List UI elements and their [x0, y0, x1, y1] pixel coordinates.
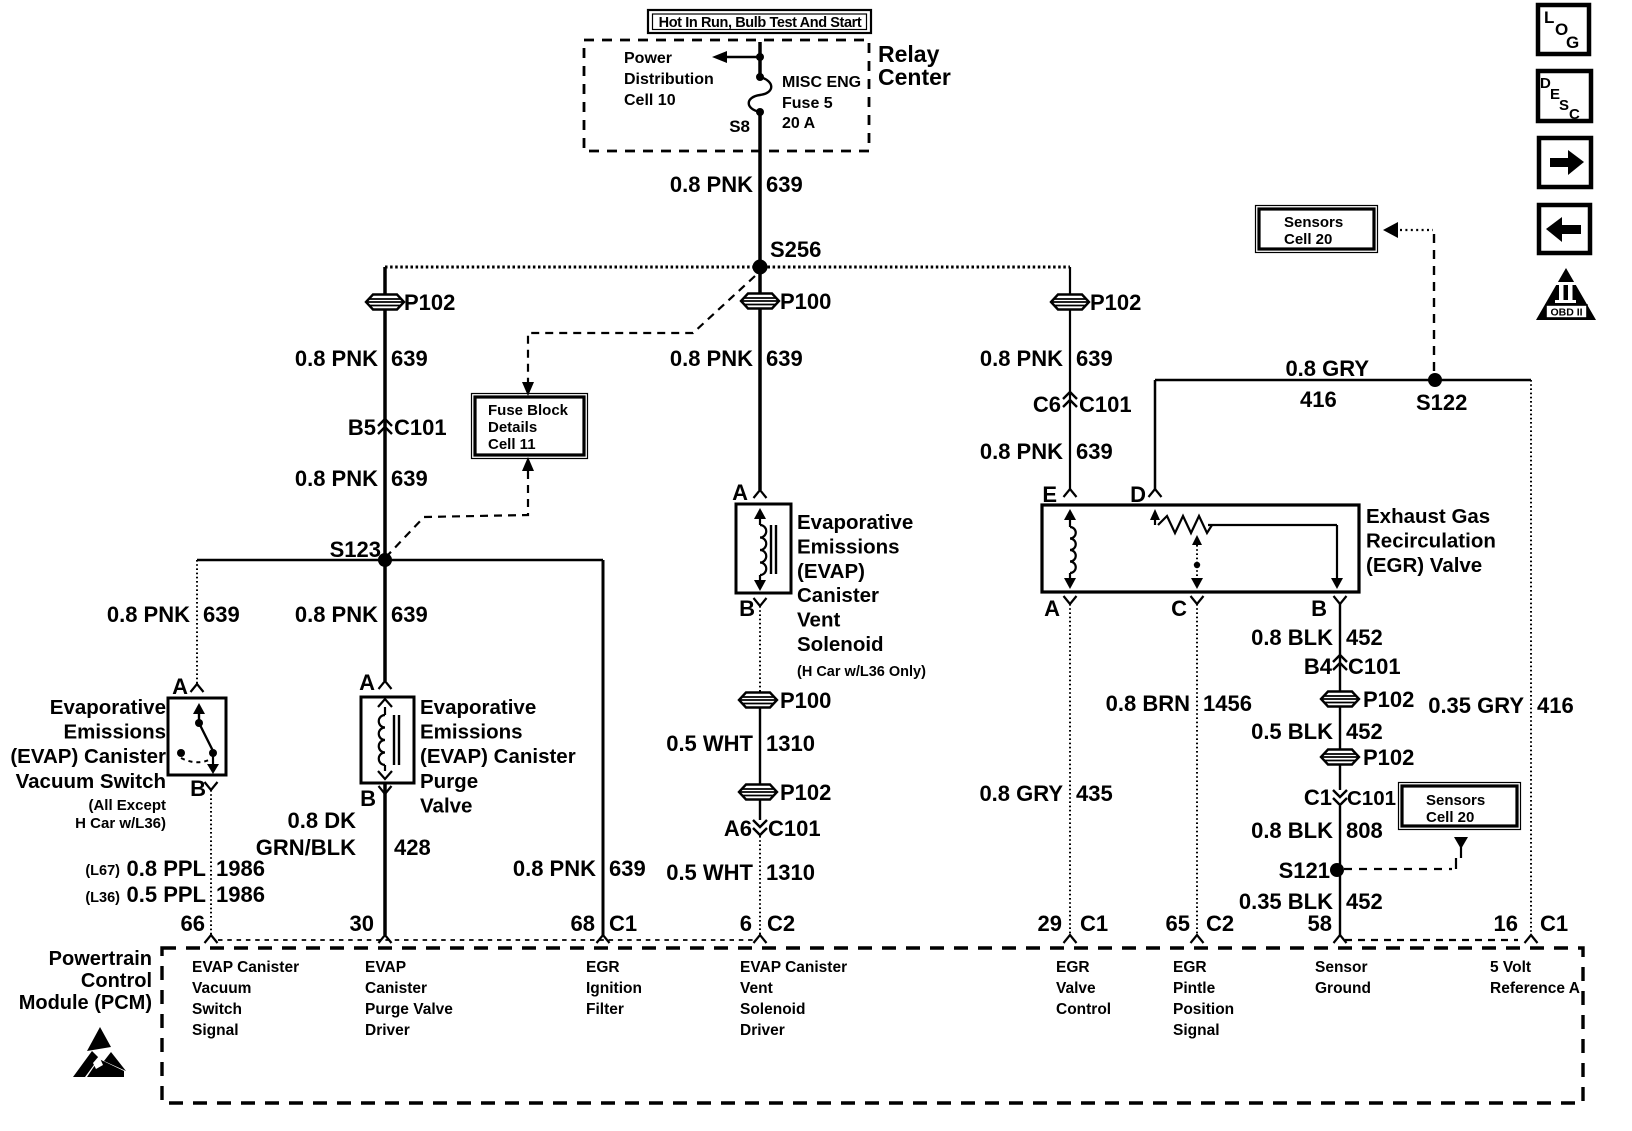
svg-text:Purge: Purge	[420, 770, 478, 793]
svg-text:5 Volt: 5 Volt	[1490, 959, 1531, 976]
svg-text:(H Car w/L36 Only): (H Car w/L36 Only)	[797, 664, 926, 680]
svg-text:0.8 DK: 0.8 DK	[288, 808, 357, 833]
svg-text:Vent: Vent	[797, 609, 840, 632]
svg-text:0.8 BLK: 0.8 BLK	[1251, 625, 1333, 650]
svg-text:Driver: Driver	[365, 1022, 410, 1039]
svg-text:Position: Position	[1173, 1001, 1234, 1018]
svg-text:30: 30	[350, 911, 374, 936]
svg-text:D: D	[1130, 482, 1146, 507]
svg-text:B: B	[190, 776, 206, 801]
svg-text:C1: C1	[1540, 911, 1568, 936]
svg-text:B: B	[739, 596, 755, 621]
svg-text:0.8 PNK: 0.8 PNK	[107, 602, 190, 627]
svg-text:68: 68	[571, 911, 595, 936]
svg-text:639: 639	[203, 602, 240, 627]
svg-text:A: A	[1044, 596, 1060, 621]
svg-text:(EVAP) Canister: (EVAP) Canister	[10, 745, 166, 768]
svg-text:C1: C1	[1080, 911, 1108, 936]
svg-text:0.8 BLK: 0.8 BLK	[1251, 818, 1333, 843]
svg-text:Cell 11: Cell 11	[488, 436, 536, 453]
svg-text:0.5 BLK: 0.5 BLK	[1251, 719, 1333, 744]
svg-text:B: B	[1311, 596, 1327, 621]
svg-text:P102: P102	[1090, 290, 1141, 315]
svg-text:639: 639	[1076, 346, 1113, 371]
svg-text:S256: S256	[770, 237, 821, 262]
svg-text:1456: 1456	[1203, 691, 1252, 716]
svg-text:Canister: Canister	[797, 584, 879, 607]
svg-text:639: 639	[609, 856, 646, 881]
svg-text:C101: C101	[394, 415, 447, 440]
svg-text:0.8 GRY: 0.8 GRY	[1285, 356, 1369, 381]
svg-text:0.8 GRY: 0.8 GRY	[979, 781, 1063, 806]
svg-text:Recirculation: Recirculation	[1366, 529, 1496, 552]
svg-text:Cell 10: Cell 10	[624, 92, 676, 109]
svg-text:0.5 PPL: 0.5 PPL	[127, 882, 206, 907]
svg-text:0.5 WHT: 0.5 WHT	[666, 731, 753, 756]
svg-text:639: 639	[391, 346, 428, 371]
svg-text:Powertrain: Powertrain	[49, 948, 152, 970]
svg-text:0.8 PNK: 0.8 PNK	[295, 346, 378, 371]
svg-text:Signal: Signal	[1173, 1022, 1220, 1039]
svg-text:639: 639	[1076, 439, 1113, 464]
svg-text:1310: 1310	[766, 860, 815, 885]
svg-text:808: 808	[1346, 818, 1383, 843]
svg-text:B: B	[360, 786, 376, 811]
svg-text:EGR: EGR	[586, 959, 620, 976]
svg-text:S8: S8	[729, 117, 750, 136]
svg-text:Pintle: Pintle	[1173, 980, 1216, 997]
svg-text:EGR: EGR	[1173, 959, 1207, 976]
svg-text:A: A	[359, 670, 375, 695]
svg-text:1986: 1986	[216, 882, 265, 907]
svg-text:A6: A6	[724, 816, 752, 841]
svg-text:416: 416	[1537, 693, 1574, 718]
svg-text:P100: P100	[780, 289, 831, 314]
svg-text:C1: C1	[1304, 785, 1332, 810]
svg-text:0.5 WHT: 0.5 WHT	[666, 860, 753, 885]
svg-text:(L36): (L36)	[85, 890, 120, 906]
svg-text:A: A	[172, 674, 188, 699]
svg-text:Solenoid: Solenoid	[797, 633, 884, 656]
svg-text:EVAP Canister: EVAP Canister	[192, 959, 299, 976]
svg-text:Switch: Switch	[192, 1001, 242, 1018]
svg-text:Power: Power	[624, 50, 672, 67]
svg-text:Evaporative: Evaporative	[50, 696, 166, 719]
svg-text:H Car w/L36): H Car w/L36)	[75, 815, 166, 832]
svg-text:(EVAP) Canister: (EVAP) Canister	[420, 745, 576, 768]
svg-text:58: 58	[1308, 911, 1332, 936]
svg-text:Evaporative: Evaporative	[797, 511, 913, 534]
svg-text:C101: C101	[1347, 787, 1396, 810]
svg-text:GRN/BLK: GRN/BLK	[256, 835, 356, 860]
svg-text:452: 452	[1346, 889, 1383, 914]
svg-text:MISC ENG: MISC ENG	[782, 74, 861, 91]
svg-text:0.8 BRN: 0.8 BRN	[1106, 691, 1190, 716]
svg-text:66: 66	[181, 911, 205, 936]
svg-text:Cell 20: Cell 20	[1284, 231, 1332, 248]
svg-text:Exhaust Gas: Exhaust Gas	[1366, 505, 1490, 528]
svg-text:Hot In Run, Bulb Test And Star: Hot In Run, Bulb Test And Start	[659, 15, 862, 31]
svg-text:P100: P100	[780, 688, 831, 713]
svg-text:6: 6	[740, 911, 752, 936]
svg-text:65: 65	[1166, 911, 1190, 936]
svg-text:(EVAP): (EVAP)	[797, 560, 865, 583]
svg-text:452: 452	[1346, 719, 1383, 744]
svg-text:P102: P102	[1363, 745, 1414, 770]
svg-text:L: L	[1544, 8, 1554, 27]
svg-text:C2: C2	[767, 911, 795, 936]
svg-text:C6: C6	[1033, 392, 1061, 417]
svg-text:EVAP: EVAP	[365, 959, 406, 976]
svg-text:Fuse 5: Fuse 5	[782, 95, 833, 112]
svg-text:Details: Details	[488, 419, 537, 436]
svg-text:639: 639	[391, 466, 428, 491]
svg-text:Valve: Valve	[420, 794, 472, 817]
svg-text:0.8 PNK: 0.8 PNK	[670, 346, 753, 371]
svg-text:Purge Valve: Purge Valve	[365, 1001, 453, 1018]
svg-text:Module (PCM): Module (PCM)	[19, 992, 152, 1014]
svg-text:Reference A: Reference A	[1490, 980, 1580, 997]
svg-text:Ignition: Ignition	[586, 980, 642, 997]
svg-text:639: 639	[766, 346, 803, 371]
svg-text:Sensors: Sensors	[1284, 214, 1343, 231]
svg-text:29: 29	[1038, 911, 1062, 936]
svg-text:EGR: EGR	[1056, 959, 1090, 976]
svg-text:0.35 GRY: 0.35 GRY	[1428, 693, 1524, 718]
svg-text:Signal: Signal	[192, 1022, 239, 1039]
svg-text:Control: Control	[1056, 1001, 1111, 1018]
svg-text:428: 428	[394, 835, 431, 860]
svg-text:Control: Control	[81, 970, 152, 992]
svg-text:C: C	[1171, 596, 1187, 621]
svg-text:0.8 PNK: 0.8 PNK	[670, 172, 753, 197]
svg-text:(L67): (L67)	[85, 863, 120, 879]
svg-text:Solenoid: Solenoid	[740, 1001, 805, 1018]
svg-text:Vacuum: Vacuum	[192, 980, 251, 997]
svg-text:OBD II: OBD II	[1550, 307, 1582, 319]
svg-text:S121: S121	[1279, 858, 1330, 883]
svg-text:Valve: Valve	[1056, 980, 1096, 997]
svg-text:B4: B4	[1304, 654, 1333, 679]
svg-text:Emissions: Emissions	[63, 721, 166, 744]
svg-text:0.8 PNK: 0.8 PNK	[295, 466, 378, 491]
svg-text:Vacuum Switch: Vacuum Switch	[16, 770, 166, 793]
svg-text:Distribution: Distribution	[624, 71, 714, 88]
svg-text:S122: S122	[1416, 390, 1467, 415]
svg-text:G: G	[1566, 33, 1579, 52]
svg-text:(EGR) Valve: (EGR) Valve	[1366, 554, 1482, 577]
svg-text:(All Except: (All Except	[88, 797, 166, 814]
svg-text:Evaporative: Evaporative	[420, 696, 536, 719]
svg-text:Vent: Vent	[740, 980, 773, 997]
svg-text:Sensor: Sensor	[1315, 959, 1368, 976]
svg-text:20 A: 20 A	[782, 115, 816, 132]
svg-text:452: 452	[1346, 625, 1383, 650]
svg-text:0.8 PNK: 0.8 PNK	[513, 856, 596, 881]
svg-text:Cell 20: Cell 20	[1426, 809, 1474, 826]
svg-text:435: 435	[1076, 781, 1113, 806]
svg-text:P102: P102	[1363, 687, 1414, 712]
svg-text:416: 416	[1300, 387, 1337, 412]
svg-text:EVAP Canister: EVAP Canister	[740, 959, 847, 976]
svg-text:S: S	[1559, 97, 1569, 114]
svg-text:0.8 PPL: 0.8 PPL	[127, 856, 206, 881]
svg-text:Emissions: Emissions	[420, 721, 523, 744]
svg-text:16: 16	[1494, 911, 1518, 936]
svg-text:A: A	[732, 480, 748, 505]
svg-text:C101: C101	[1079, 392, 1132, 417]
svg-text:Canister: Canister	[365, 980, 427, 997]
svg-text:B5: B5	[348, 415, 376, 440]
svg-text:P102: P102	[404, 290, 455, 315]
svg-text:E: E	[1042, 482, 1057, 507]
svg-text:C2: C2	[1206, 911, 1234, 936]
svg-text:C: C	[1569, 106, 1580, 123]
svg-text:Center: Center	[878, 64, 951, 90]
svg-text:S123: S123	[330, 537, 381, 562]
svg-text:0.8 PNK: 0.8 PNK	[980, 346, 1063, 371]
svg-text:C101: C101	[768, 816, 821, 841]
svg-text:Ground: Ground	[1315, 980, 1371, 997]
svg-text:1310: 1310	[766, 731, 815, 756]
svg-text:639: 639	[766, 172, 803, 197]
svg-text:Sensors: Sensors	[1426, 792, 1485, 809]
svg-text:C1: C1	[609, 911, 637, 936]
svg-text:Filter: Filter	[586, 1001, 624, 1018]
svg-text:639: 639	[391, 602, 428, 627]
svg-text:Fuse Block: Fuse Block	[488, 402, 569, 419]
svg-text:Driver: Driver	[740, 1022, 785, 1039]
svg-text:P102: P102	[780, 780, 831, 805]
svg-text:C101: C101	[1348, 654, 1401, 679]
svg-text:Emissions: Emissions	[797, 535, 900, 558]
svg-text:0.8 PNK: 0.8 PNK	[980, 439, 1063, 464]
svg-text:0.8 PNK: 0.8 PNK	[295, 602, 378, 627]
